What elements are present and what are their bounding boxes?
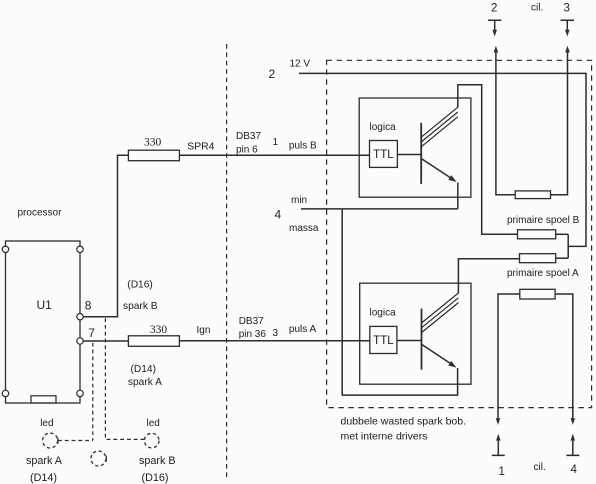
primaire spoel B coil: [518, 230, 556, 239]
svg-text:7: 7: [88, 326, 95, 340]
transistor Q-B base bar: [420, 123, 422, 184]
12V supply wire: [299, 73, 586, 246]
transistor Q-B base wire: [397, 154, 421, 156]
pin 8 circle: [77, 314, 83, 320]
transistor Q-B collector lines: [421, 107, 458, 147]
TTL box A: [370, 326, 397, 353]
svg-text:dubbele wasted spark bob.: dubbele wasted spark bob.: [341, 416, 467, 428]
min massa wire: [301, 208, 458, 210]
svg-text:12 V: 12 V: [290, 59, 311, 70]
svg-text:2: 2: [269, 67, 276, 81]
svg-text:min: min: [291, 195, 307, 206]
spark gap cil 4 up arrowhead: [571, 434, 576, 441]
Q-A collector loop to primaire spoel A: [458, 259, 519, 294]
svg-text:spark B: spark B: [139, 455, 176, 467]
svg-text:puls A: puls A: [289, 324, 317, 335]
spark gap cil 3 down arrowhead: [565, 30, 570, 37]
resistor 330 Ign: [128, 336, 179, 347]
spark gap cil 3 electrode: [561, 20, 575, 29]
spark gap cil 1 down arrowhead: [496, 418, 501, 425]
dashed wire led D14 horizontal: [58, 440, 93, 442]
svg-text:cil.: cil.: [534, 462, 546, 473]
transistor Q-B emitter arrowhead: [448, 175, 456, 182]
svg-text:led: led: [40, 418, 53, 429]
svg-text:cil.: cil.: [531, 3, 543, 14]
svg-text:pin 36: pin 36: [239, 329, 267, 340]
DB37 connector dashed line: [226, 44, 228, 477]
svg-text:processor: processor: [18, 208, 63, 219]
svg-text:1: 1: [273, 137, 279, 148]
dashed wire pin 7 to led D14: [92, 343, 94, 441]
wire SPR4 / puls B to TTL B: [179, 154, 369, 156]
svg-text:met interne drivers: met interne drivers: [341, 430, 428, 442]
svg-text:DB37: DB37: [239, 316, 264, 327]
led middle tick: [105, 456, 107, 462]
pin circle top-left: [2, 246, 8, 252]
svg-text:primaire spoel B: primaire spoel B: [507, 215, 580, 226]
svg-text:logica: logica: [370, 122, 397, 133]
svg-text:DB37: DB37: [236, 131, 261, 142]
svg-text:1: 1: [499, 466, 505, 478]
TTL box B: [370, 141, 398, 168]
svg-text:2: 2: [491, 3, 497, 15]
Q-B collector loop to primaire spoel B: [458, 85, 518, 235]
svg-text:4: 4: [275, 208, 282, 222]
processor notch: [31, 396, 56, 403]
processor U1 box: [6, 241, 81, 403]
secondary A left wire to cil 1: [498, 294, 520, 418]
spark gap cil 1 up arrowhead: [496, 434, 501, 441]
dashed module box dubbele wasted spark bob.: [327, 60, 592, 407]
svg-text:logica: logica: [370, 307, 397, 318]
secondary B left wire to cil 2: [496, 52, 515, 195]
svg-text:primaire spoel A: primaire spoel A: [507, 268, 579, 279]
svg-text:U1: U1: [37, 298, 53, 312]
svg-text:(D14): (D14): [131, 364, 156, 375]
svg-text:330: 330: [150, 324, 168, 336]
secondary coil B: [515, 191, 550, 199]
svg-text:puls B: puls B: [289, 141, 317, 152]
svg-text:spark A: spark A: [26, 455, 63, 467]
spark gap cil 3 up arrowhead: [565, 46, 570, 53]
transistor Q-A collector lines: [422, 293, 459, 333]
transistor Q-A emitter arrowhead: [448, 361, 456, 368]
secondary A right wire to cil 4: [555, 294, 573, 418]
svg-text:4: 4: [571, 464, 578, 476]
led middle circle: [91, 451, 106, 466]
led D14 circle: [43, 433, 58, 448]
primaire spoel B right wire: [556, 233, 569, 235]
svg-text:(D16): (D16): [127, 280, 152, 291]
led D16 circle: [144, 433, 159, 448]
primaire spoel A coil: [520, 254, 556, 263]
transistor Q-A base bar: [421, 309, 423, 370]
spark gap cil 4 electrode: [566, 441, 579, 456]
svg-text:led: led: [147, 418, 160, 429]
wire Ign / puls A to TTL A: [179, 340, 369, 342]
secondary coil A: [520, 289, 555, 299]
driver B logica box: [359, 98, 471, 197]
svg-text:(D16): (D16): [142, 472, 169, 484]
led D14 tick: [57, 438, 59, 444]
spark gap cil 2 up arrowhead: [494, 46, 499, 53]
spark gap cil 4 down arrowhead: [571, 418, 576, 425]
svg-text:pin 6: pin 6: [236, 145, 258, 156]
svg-text:3: 3: [273, 328, 279, 339]
coil right-side common vertical: [567, 234, 569, 258]
spark gap cil 2 electrode: [488, 20, 501, 29]
pin circle top-right: [77, 246, 83, 252]
transistor Q-A base wire: [397, 340, 422, 342]
pin circle bottom-left: [2, 390, 8, 396]
wire pin 7 to resistor R-Ign: [83, 340, 128, 342]
svg-text:Ign: Ign: [197, 325, 211, 336]
svg-text:SPR4: SPR4: [187, 142, 214, 153]
wire pin 8 to resistor R-SPR4: [83, 155, 128, 316]
resistor 330 SPR4: [128, 150, 179, 161]
svg-text:spark A: spark A: [128, 377, 162, 388]
pin 7 circle: [77, 338, 83, 344]
spark gap cil 2 down arrowhead: [492, 30, 497, 37]
svg-text:3: 3: [564, 3, 570, 15]
svg-text:8: 8: [85, 299, 92, 313]
svg-text:(D14): (D14): [30, 472, 57, 484]
spark gap cil 1 electrode: [492, 441, 505, 456]
transistor Q-A emitter: [422, 344, 454, 365]
svg-text:TTL: TTL: [373, 149, 394, 161]
pin circle bottom-right: [77, 390, 83, 396]
svg-text:massa: massa: [289, 223, 319, 234]
dashed wire pin 8 to led D16: [105, 318, 144, 439]
transistor Q-B emitter: [421, 159, 453, 180]
svg-text:spark B: spark B: [123, 301, 158, 312]
svg-text:330: 330: [144, 137, 162, 149]
driver A logica box: [360, 283, 471, 384]
primaire spoel A right wire: [556, 257, 569, 259]
massa branch to driver A emitter: [342, 209, 457, 395]
Q-B emitter wire down to massa: [457, 183, 459, 209]
svg-text:TTL: TTL: [373, 335, 394, 347]
secondary B right wire to cil 3: [551, 52, 568, 195]
